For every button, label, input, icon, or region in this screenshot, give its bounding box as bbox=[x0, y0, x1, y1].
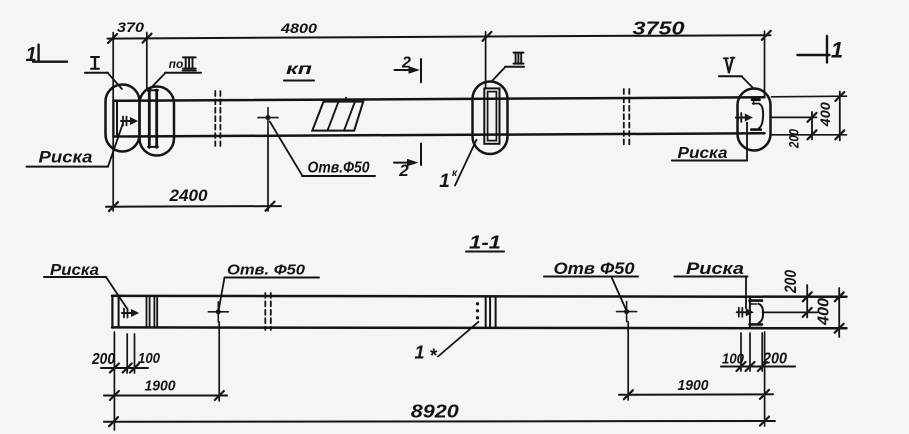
svg-text:1900: 1900 bbox=[145, 378, 176, 394]
svg-text:100: 100 bbox=[722, 351, 744, 367]
svg-text:100: 100 bbox=[138, 351, 160, 367]
svg-text:Отв.Ф50: Отв.Ф50 bbox=[308, 160, 370, 177]
svg-text:1-1: 1-1 bbox=[469, 232, 501, 252]
svg-text:Риска: Риска bbox=[39, 148, 93, 166]
svg-text:Риска: Риска bbox=[50, 262, 99, 279]
svg-text:Риска: Риска bbox=[678, 145, 728, 162]
svg-text:1: 1 bbox=[25, 44, 36, 66]
svg-text:Риска: Риска bbox=[686, 260, 744, 278]
svg-text:2400: 2400 bbox=[168, 186, 208, 205]
svg-text:1900: 1900 bbox=[678, 378, 709, 394]
svg-text:200: 200 bbox=[781, 270, 800, 294]
svg-text:Отв Ф50: Отв Ф50 bbox=[554, 260, 636, 278]
svg-text:200: 200 bbox=[762, 350, 787, 367]
svg-text:кп: кп bbox=[286, 61, 312, 78]
svg-text:2: 2 bbox=[398, 161, 409, 180]
svg-text:1: 1 bbox=[439, 171, 450, 192]
svg-text:1: 1 bbox=[414, 343, 424, 363]
svg-text:к: к bbox=[452, 168, 458, 179]
svg-text:370: 370 bbox=[117, 19, 144, 35]
svg-text:400: 400 bbox=[816, 298, 833, 326]
svg-text:по: по bbox=[169, 57, 184, 71]
svg-text:4800: 4800 bbox=[280, 20, 317, 36]
svg-text:1: 1 bbox=[831, 38, 843, 63]
svg-text:200: 200 bbox=[786, 129, 802, 149]
svg-text:Отв. Ф50: Отв. Ф50 bbox=[227, 261, 306, 278]
svg-text:3750: 3750 bbox=[633, 19, 685, 39]
svg-text:8920: 8920 bbox=[411, 401, 460, 422]
svg-text:2: 2 bbox=[401, 55, 411, 72]
svg-text:400: 400 bbox=[817, 102, 833, 127]
svg-text:200: 200 bbox=[91, 351, 115, 368]
svg-text:*: * bbox=[429, 346, 438, 367]
